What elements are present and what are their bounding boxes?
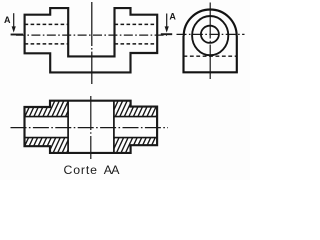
slot wall right in section — [113, 101, 115, 153]
hatch upper band right of slot (large dia) — [114, 101, 131, 117]
section outline — [25, 101, 158, 153]
section arrow left — [12, 13, 16, 32]
base block of side view — [184, 36, 237, 72]
horizontal axis centerline of front view — [16, 34, 167, 36]
hatch upper band left of slot (large dia) — [50, 101, 68, 117]
bore line lower in section — [25, 137, 158, 139]
hatch lower-left band (small end) — [25, 138, 51, 147]
bore line upper in section — [25, 116, 158, 118]
hidden bore line lower — [25, 43, 158, 45]
hatch lower-right band (small end) — [131, 138, 158, 146]
hatch upper-right band (small end) — [131, 107, 158, 117]
section trace left (thick) — [11, 34, 23, 36]
side view vertical centerline — [209, 3, 211, 80]
hatch lower band right of slot (large dia) — [114, 138, 131, 153]
hidden bore line upper — [25, 23, 158, 25]
svg-text:A: A — [4, 15, 11, 25]
svg-text:AA: AA — [104, 163, 120, 177]
hatch upper-left band (small end) — [25, 107, 51, 117]
outer cylinder half-circle — [184, 10, 237, 37]
side view horizontal centerline — [177, 33, 245, 35]
svg-text:A: A — [169, 12, 176, 22]
middle circle (shaft dia) — [192, 16, 228, 55]
section trace right (thick) — [161, 33, 172, 35]
front view outline (shafts, centre body, U-slot) — [25, 8, 158, 72]
section axis centerline — [11, 127, 169, 129]
section arrow right — [165, 14, 169, 33]
svg-text:Corte: Corte — [64, 163, 98, 177]
hatch lower band left of slot (large dia) — [50, 138, 68, 153]
section vertical centerline — [90, 96, 92, 159]
vertical centerline of front view — [91, 2, 93, 84]
slot wall left in section — [67, 101, 69, 153]
hidden slot bottom line in side view — [184, 55, 237, 57]
inner circle (bore) — [201, 26, 219, 43]
